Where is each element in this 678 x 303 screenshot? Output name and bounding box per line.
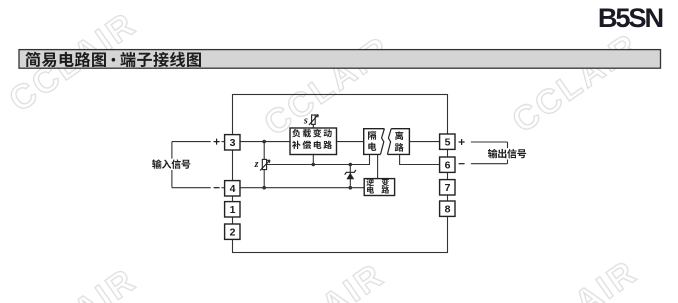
wire load-block bottom stub — [312, 155, 314, 165]
terminal 2 — [225, 224, 240, 239]
wire mid row from Z to isolation block — [267, 155, 370, 165]
svg-text:4: 4 — [230, 183, 236, 195]
terminal 6 — [440, 157, 455, 172]
potentiometer Z (zero adjust) — [260, 159, 270, 170]
wire output + horizontal — [471, 141, 508, 143]
svg-text:z: z — [254, 159, 259, 170]
wire terminal3 to load-compensation block — [240, 141, 290, 143]
block U1 负载变动补偿电路 (load variation compensation circuit) — [290, 128, 337, 155]
input + polarity sign — [214, 139, 220, 145]
svg-text:2: 2 — [230, 227, 236, 239]
wire load block to isolation block — [337, 141, 364, 143]
label 输出信号 (output signal) — [487, 148, 529, 159]
wire isolation secondary stub to terminal 6 — [400, 155, 440, 165]
wire input + stub to terminal 3 — [221, 141, 224, 143]
label s — [303, 116, 308, 127]
label z — [254, 159, 259, 170]
svg-text:6: 6 — [445, 160, 451, 172]
model number B5SN — [598, 2, 663, 33]
terminal 3 — [225, 135, 240, 150]
svg-text:B5SN: B5SN — [598, 2, 663, 33]
wire isolation primary stub to inverter — [377, 155, 379, 179]
output + polarity sign — [459, 139, 465, 145]
wire input vertical — [171, 142, 173, 188]
svg-text:5: 5 — [445, 137, 451, 149]
header bar 简易电路图·端子接线图 — [19, 50, 661, 69]
output - polarity sign — [459, 163, 465, 165]
junction node load-block bottom stub — [312, 163, 316, 167]
terminal 4 — [225, 181, 240, 196]
terminal 8 — [440, 201, 455, 216]
wire bottom row terminal4 to inverter block — [240, 187, 364, 189]
svg-text:3: 3 — [230, 137, 236, 149]
zener diode D1 — [345, 170, 356, 179]
svg-text:s: s — [303, 116, 308, 127]
wire zener branch — [349, 165, 351, 188]
wire z branch vertical — [263, 142, 265, 188]
junction node z-top — [262, 140, 266, 144]
junction node zener bottom — [349, 186, 353, 190]
terminal 7 — [440, 180, 455, 195]
wire input - stub to terminal 4 — [221, 187, 224, 189]
svg-text:1: 1 — [230, 204, 236, 216]
input - polarity sign — [214, 187, 220, 189]
potentiometer S (span adjust) — [309, 115, 318, 128]
svg-text:8: 8 — [445, 204, 451, 216]
wire output vertical — [507, 142, 509, 164]
svg-text:7: 7 — [445, 182, 451, 194]
terminal 1 — [225, 202, 240, 217]
wire isolation block to terminal 5 — [410, 141, 440, 143]
block U2 隔离电路 (isolation circuit) with break — [364, 129, 410, 155]
junction node zener top — [349, 163, 353, 167]
block U3 逆变电路 (inverter circuit) — [364, 178, 394, 195]
junction node z-bottom — [262, 186, 266, 190]
wire input - horizontal — [172, 187, 211, 189]
terminal 5 — [440, 134, 455, 149]
label 输入信号 (input signal) — [151, 159, 193, 170]
module outline box — [233, 95, 448, 253]
wire input + horizontal — [172, 141, 211, 143]
wire output - horizontal — [471, 163, 508, 165]
